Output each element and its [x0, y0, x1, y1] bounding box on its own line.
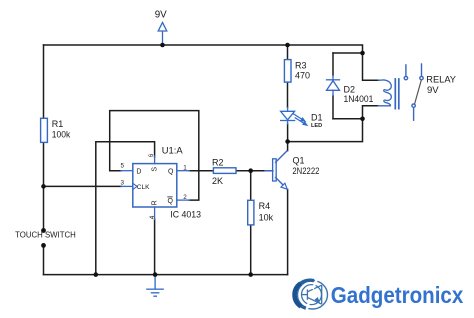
- junction node R3 tap: [285, 43, 290, 48]
- pin 6 stub: [154, 156, 156, 164]
- junction node CLK/left rail: [41, 184, 46, 189]
- wire collector node to relay branch: [288, 119, 363, 142]
- svg-text:CLK: CLK: [137, 184, 150, 191]
- LED arrows: [293, 114, 307, 125]
- svg-text:R: R: [151, 200, 158, 205]
- relay contact pole: [412, 104, 415, 120]
- wire D2 bottom leg: [333, 118, 363, 120]
- relay contact moving arm: [415, 80, 422, 104]
- junction node 9V stem: [160, 43, 165, 48]
- pin 1 stub: [177, 170, 190, 172]
- wire LED cathode to collector node: [287, 124, 289, 142]
- diode D1 LED: [281, 108, 295, 125]
- svg-text:9V: 9V: [155, 10, 167, 21]
- svg-text:R2: R2: [212, 157, 224, 167]
- logo icon Gadgetronicx: [295, 279, 328, 313]
- pin 3 stub: [121, 185, 133, 187]
- svg-text:1N4001: 1N4001: [344, 94, 374, 104]
- wire collector node vertical: [287, 142, 289, 151]
- wire relay coil top leg: [363, 53, 379, 80]
- junction node collector/LED: [285, 139, 290, 144]
- junction node D2 top: [360, 51, 365, 56]
- resistor R3: [284, 60, 291, 83]
- svg-text:LED: LED: [311, 123, 322, 129]
- svg-text:Q1: Q1: [293, 155, 305, 165]
- svg-text:RELAY: RELAY: [426, 74, 456, 85]
- svg-text:R1: R1: [52, 119, 64, 129]
- junction node D2 bottom: [360, 117, 365, 122]
- wire D2 left leg lower: [332, 96, 334, 119]
- svg-text:1: 1: [183, 164, 187, 171]
- svg-text:100k: 100k: [52, 129, 71, 139]
- wire feedback loop Q̄ pin2 to D pin5: [110, 111, 199, 201]
- wire S pin6 loop to ground rail: [96, 142, 155, 275]
- svg-text:R4: R4: [259, 201, 271, 211]
- svg-text:U1:A: U1:A: [162, 146, 184, 157]
- svg-text:IC 4013: IC 4013: [170, 210, 201, 221]
- relay core lines: [395, 79, 399, 109]
- wire D2 top leg: [333, 52, 363, 54]
- wire relay coil bottom leg: [363, 106, 379, 119]
- wire Q pin1 to R2: [189, 170, 213, 172]
- resistor R2: [213, 168, 236, 174]
- junction node ground symbol: [153, 272, 158, 277]
- relay contact right terminal: [420, 64, 423, 80]
- svg-text:2N2222: 2N2222: [292, 166, 319, 176]
- wire R3 branch from top rail: [287, 45, 289, 60]
- svg-text:5: 5: [121, 163, 125, 170]
- pin 5 stub: [121, 170, 133, 172]
- svg-text:4: 4: [149, 215, 156, 219]
- clock input triangle: [133, 183, 137, 189]
- wire R3 to LED anode: [287, 82, 289, 107]
- svg-text:470: 470: [295, 70, 310, 80]
- wire D2 left leg upper: [332, 53, 334, 76]
- svg-text:D2: D2: [344, 84, 356, 94]
- relay coil: [378, 80, 391, 106]
- wire R2 to Q1 base: [236, 170, 273, 172]
- wire R pin4 down to ground rail: [154, 219, 156, 275]
- pin 2 stub: [177, 199, 190, 201]
- resistor R4: [248, 200, 254, 225]
- touch switch lower contact: [41, 243, 46, 248]
- svg-text:6: 6: [148, 153, 155, 157]
- svg-text:2: 2: [183, 194, 187, 201]
- wire left rail upper (R1 branch): [43, 45, 45, 231]
- junction node R4/ground rail: [248, 272, 253, 277]
- wire emitter down to ground rail: [287, 190, 289, 275]
- svg-text:9V: 9V: [427, 85, 439, 96]
- ground symbol: [147, 275, 163, 297]
- svg-text:S: S: [151, 167, 158, 172]
- junction node R2/R4/base: [248, 168, 253, 173]
- junction node S-loop/ground rail: [94, 272, 99, 277]
- wire bottom ground rail: [44, 274, 288, 276]
- svg-text:2K: 2K: [212, 176, 223, 186]
- power symbol 9V arrow: [158, 22, 167, 45]
- svg-text:TOUCH SWITCH: TOUCH SWITCH: [15, 230, 76, 240]
- wire node to R4 top: [250, 171, 252, 201]
- svg-text:D1: D1: [311, 112, 323, 122]
- wire top +9V rail: [44, 45, 363, 53]
- wire CLK pin3 to left rail: [44, 185, 122, 187]
- wire R4 bottom to ground rail: [250, 225, 252, 275]
- resistor R1: [41, 118, 48, 142]
- svg-text:Gadgetronicx: Gadgetronicx: [331, 282, 464, 308]
- svg-text:3: 3: [121, 180, 125, 187]
- pin Q-bar overline: [167, 196, 172, 198]
- pin 4 stub: [154, 207, 156, 220]
- diode D2 1N4001: [327, 76, 340, 96]
- wire left rail lower (below touch switch): [43, 245, 45, 274]
- svg-text:Q: Q: [168, 198, 174, 205]
- svg-text:R3: R3: [295, 60, 307, 70]
- transistor Q1 2N2222: [265, 151, 287, 189]
- relay contact left terminal: [404, 65, 407, 80]
- flip-flop U1 IC4013 body: [133, 164, 177, 207]
- svg-text:D: D: [136, 168, 141, 175]
- touch switch upper contact: [41, 228, 46, 233]
- svg-text:Q: Q: [168, 168, 174, 175]
- svg-text:10k: 10k: [259, 213, 274, 223]
